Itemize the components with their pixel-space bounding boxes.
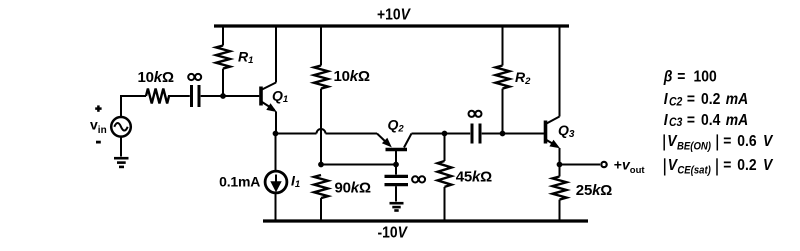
svg-text:=: = bbox=[687, 90, 695, 108]
svg-text:Q2: Q2 bbox=[388, 117, 405, 135]
-10V rail bbox=[263, 219, 588, 222]
svg-text:=: = bbox=[723, 132, 731, 150]
resistor 25k bbox=[553, 165, 567, 222]
capacitor C3 coupling bbox=[472, 124, 480, 144]
IC3 equation bbox=[664, 111, 748, 129]
svg-text:C2: C2 bbox=[669, 96, 683, 109]
svg-text:V: V bbox=[763, 132, 774, 150]
svg-text:R1: R1 bbox=[238, 48, 253, 66]
svg-text:I1: I1 bbox=[291, 172, 300, 190]
vin minus label bbox=[96, 141, 101, 144]
transistor Q2 bbox=[377, 134, 412, 165]
wire C3 to Q3 base bbox=[482, 133, 544, 135]
wire Q1 emitter to Q2 emitter with hop bbox=[276, 129, 378, 134]
svg-text:+10V: +10V bbox=[377, 6, 412, 24]
node Q1 emitter bbox=[273, 131, 279, 137]
resistor 10k input bbox=[146, 89, 169, 104]
svg-text:C3: C3 bbox=[669, 117, 683, 130]
svg-text:vin: vin bbox=[90, 117, 107, 136]
transistor Q1 bbox=[261, 26, 277, 134]
C2 infinity label bbox=[412, 176, 425, 182]
svg-text:=: = bbox=[687, 111, 695, 129]
svg-text:Q1: Q1 bbox=[272, 87, 288, 105]
ground (C2) bbox=[390, 203, 404, 210]
wire divider to Q2 base bbox=[321, 164, 396, 166]
resistor 45k bbox=[438, 134, 452, 222]
wire vin bottom to ground bbox=[120, 137, 122, 157]
capacitor C2 bypass bbox=[385, 165, 409, 202]
resistor 90k bbox=[314, 175, 328, 221]
svg-text:10kΩ: 10kΩ bbox=[334, 68, 370, 85]
VCE(sat) equation bbox=[665, 156, 774, 177]
svg-text:90kΩ: 90kΩ bbox=[335, 179, 371, 196]
VBE(ON) equation bbox=[664, 132, 774, 153]
node R2 bottom bbox=[500, 131, 506, 137]
svg-text:45kΩ: 45kΩ bbox=[456, 169, 492, 186]
node 45k top bbox=[442, 131, 448, 137]
wire resistor to C1 bbox=[168, 95, 190, 97]
svg-text:0.6: 0.6 bbox=[737, 132, 756, 150]
wire to vout terminal bbox=[560, 164, 601, 166]
C1 infinity label bbox=[188, 74, 201, 80]
transistor Q3 bbox=[546, 26, 561, 165]
svg-text:mA: mA bbox=[726, 111, 748, 129]
svg-text:mA: mA bbox=[726, 90, 748, 108]
resistor R2 bbox=[496, 26, 510, 134]
svg-text:0.4: 0.4 bbox=[701, 111, 721, 129]
vin plus label bbox=[95, 105, 101, 111]
svg-text:V: V bbox=[763, 156, 774, 174]
IC2 equation bbox=[664, 90, 748, 108]
resistor 10k bias bbox=[314, 26, 328, 165]
node divider bbox=[318, 162, 324, 168]
node Q2 base bbox=[393, 162, 399, 168]
node Q3 emitter bbox=[557, 162, 563, 168]
svg-text:=: = bbox=[723, 156, 731, 174]
vout terminal bbox=[601, 162, 606, 167]
node base Q1 bbox=[220, 93, 226, 99]
svg-text:100: 100 bbox=[694, 67, 717, 85]
+10V rail bbox=[214, 24, 569, 27]
ground (vin) bbox=[114, 158, 129, 167]
resistor R1 bbox=[216, 26, 230, 96]
C3 infinity label bbox=[469, 111, 482, 117]
svg-text:β: β bbox=[663, 67, 673, 85]
svg-text:10kΩ: 10kΩ bbox=[138, 69, 174, 86]
beta equation bbox=[663, 67, 717, 85]
current source I1 bbox=[265, 134, 287, 222]
svg-text:+vout: +vout bbox=[614, 156, 646, 176]
svg-text:BE(ON): BE(ON) bbox=[677, 141, 712, 153]
svg-text:=: = bbox=[677, 67, 685, 85]
svg-text:Q3: Q3 bbox=[558, 122, 575, 140]
capacitor C1 infinity bbox=[192, 85, 200, 107]
svg-text:CE(sat): CE(sat) bbox=[677, 165, 711, 177]
svg-text:0.2: 0.2 bbox=[701, 90, 720, 108]
svg-text:0.1mA: 0.1mA bbox=[219, 173, 260, 189]
wire C1 to Q1 base bbox=[201, 95, 260, 97]
svg-text:0.2: 0.2 bbox=[737, 156, 756, 174]
svg-text:R2: R2 bbox=[515, 69, 531, 87]
svg-text:-10V: -10V bbox=[378, 224, 409, 242]
wire Q2 collector to C3 bbox=[412, 133, 471, 135]
source vin bbox=[111, 117, 131, 137]
svg-text:I: I bbox=[664, 90, 669, 108]
wire vin top to resistor bbox=[121, 96, 146, 117]
svg-text:I: I bbox=[664, 111, 669, 129]
svg-text:25kΩ: 25kΩ bbox=[576, 182, 612, 199]
